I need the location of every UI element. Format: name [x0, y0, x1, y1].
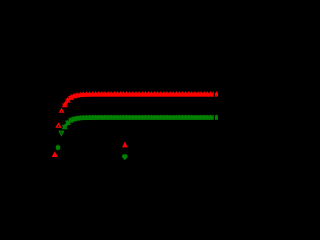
- red point n3 hollow triangle: [59, 108, 65, 113]
- legend red triangle-up: [122, 141, 128, 147]
- red series band down-markers: [62, 93, 220, 107]
- green point n2 blob: [56, 144, 60, 151]
- red point n1 solid triangle: [52, 151, 58, 157]
- right axis spine (black over data): [214, 80, 215, 130]
- green series rise fill line: [65, 118, 87, 127]
- green point n3 hollow triangle down: [58, 131, 64, 137]
- red series rise fill line: [65, 95, 87, 105]
- legend green triangle-down: [122, 154, 128, 160]
- red series up-markers: [62, 91, 220, 107]
- red series line: [65, 94, 217, 105]
- green series band down-markers: [62, 115, 220, 129]
- green series up-markers: [62, 114, 220, 129]
- red point n2 hollow triangle: [55, 122, 62, 128]
- green series line: [65, 117, 217, 126]
